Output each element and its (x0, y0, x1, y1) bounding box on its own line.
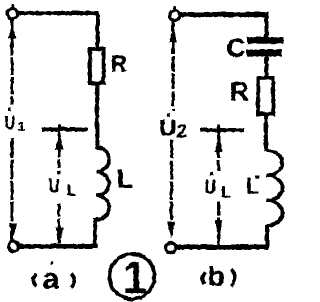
figure number circle 1 (109, 252, 154, 302)
inductor L (b) (266, 150, 283, 225)
voltage arrow line UL upper (a) (57, 131, 60, 167)
tick above bar (b) (217, 124, 220, 130)
svg-text:b: b (207, 260, 224, 291)
wire coil-to-bottom (a) (93, 218, 96, 245)
wire right upper (b) (264, 14, 268, 37)
resistor R (a) (90, 49, 104, 83)
label L (b) (245, 173, 259, 198)
terminal bottom-left (b) (165, 243, 175, 253)
voltage arrow line UL lower (a) (57, 203, 60, 243)
caption (a) (33, 262, 74, 296)
svg-text:C: C (226, 32, 245, 62)
svg-text:L: L (66, 182, 76, 199)
arrowhead U1 down (a) (9, 223, 16, 239)
resistor R (b) (258, 78, 273, 114)
voltage arrow line UL upper (b) (217, 132, 220, 171)
arrowhead UL up (b) (214, 133, 222, 152)
reference bar of UL (a) (41, 127, 87, 130)
svg-text:1: 1 (122, 252, 147, 302)
svg-text:U: U (159, 114, 176, 140)
svg-text:1: 1 (17, 118, 24, 133)
terminal bottom-left (a) (8, 241, 18, 251)
terminal top-left (b) (169, 6, 179, 21)
label UL (b) (204, 172, 231, 202)
voltage arrow line U2 lower (b) (170, 140, 173, 235)
svg-text:U: U (4, 112, 15, 134)
svg-text:L: L (221, 184, 231, 201)
voltage arrow line UL lower (b) (217, 201, 220, 244)
wire bottom (a) (14, 244, 97, 248)
tick above bar (a) (57, 124, 60, 130)
inductor L (a) (96, 147, 109, 219)
voltage arrow line U1 lower (a) (10, 138, 13, 240)
svg-text:2: 2 (176, 121, 187, 142)
wire resistor-to-coil (b) (264, 113, 267, 151)
capacitor C bottom plate (b) (246, 49, 281, 55)
wire cap-to-resistor (b) (264, 55, 267, 78)
arrowhead UL down (a) (55, 227, 63, 243)
svg-text:R: R (110, 50, 127, 76)
wire right upper (a) (95, 13, 99, 50)
svg-text:U: U (204, 176, 216, 198)
wire top (b) (180, 12, 268, 16)
arrowhead U1 up (a) (8, 25, 16, 38)
wire resistor-to-coil (a) (95, 83, 98, 149)
label UL (a) (48, 170, 76, 199)
svg-text:U: U (48, 175, 59, 197)
voltage arrow line U1 upper (a) (10, 19, 13, 104)
wire bottom (b) (171, 244, 268, 249)
voltage arrow line U2 upper (b) (171, 21, 174, 110)
arrowhead U2 up (b) (169, 26, 176, 42)
wire top (a) (18, 11, 99, 15)
svg-text:R: R (229, 76, 249, 106)
terminal top-left (a) (7, 4, 17, 19)
caption (b) (202, 260, 234, 291)
label U1 (a) (4, 107, 24, 134)
reference bar of UL (b) (200, 128, 244, 131)
svg-text:a: a (42, 262, 59, 295)
wire coil-to-bottom (b) (265, 224, 269, 246)
svg-text:L: L (116, 163, 133, 193)
capacitor C top plate (b) (247, 37, 283, 44)
arrowhead UL down (b) (214, 220, 221, 238)
label U2 (b) (159, 113, 187, 143)
arrowhead U2 down (b) (167, 221, 174, 237)
arrowhead UL up (a) (55, 133, 63, 149)
